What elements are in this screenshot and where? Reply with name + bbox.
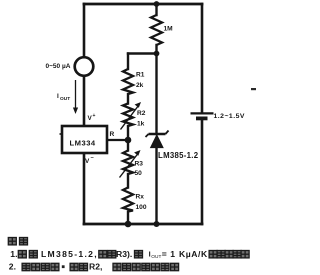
svg-text:I: I	[57, 93, 59, 100]
svg-text:2k: 2k	[136, 82, 144, 89]
caption heading	[8, 238, 27, 245]
svg-text:=: =	[162, 249, 167, 259]
wire between R1 and R2	[127, 94, 129, 104]
svg-text:Rx: Rx	[136, 194, 145, 201]
op-amp U1 LM334 box	[60, 126, 108, 153]
svg-text:LM334: LM334	[70, 139, 96, 148]
svg-text:1k: 1k	[137, 121, 145, 128]
svg-text:R3: R3	[135, 161, 144, 168]
wire left column R1 top lead	[127, 54, 129, 70]
resistor 1M	[151, 15, 173, 45]
pin label V+	[88, 113, 96, 122]
svg-text:1M: 1M	[164, 26, 174, 33]
wire right rail upper (battery +)	[201, 4, 204, 112]
zener diode D1 LM385-1.2	[146, 131, 199, 161]
svg-text:1.2~1.5V: 1.2~1.5V	[214, 113, 245, 120]
svg-text:1: 1	[170, 249, 175, 259]
node E junction dot bottom zener	[154, 221, 160, 227]
wire LM334 V- down	[83, 152, 86, 224]
svg-text:0~50 µA: 0~50 µA	[46, 63, 71, 70]
svg-text:R: R	[110, 131, 115, 138]
svg-text:R2: R2	[137, 110, 146, 117]
wire top rail	[84, 3, 202, 6]
svg-text:OUT: OUT	[60, 96, 70, 102]
wire between R2 and R3	[127, 126, 129, 151]
svg-text:V: V	[85, 158, 90, 165]
potentiometer R2 1k	[121, 102, 146, 130]
svg-text:1.: 1.	[10, 249, 17, 259]
battery B1 1.2~1.5V	[191, 113, 245, 120]
svg-text:R2,: R2,	[89, 262, 102, 272]
svg-text:OUT: OUT	[151, 254, 161, 260]
svg-text:100: 100	[136, 204, 147, 211]
node D junction dot bottom Rx	[125, 221, 132, 228]
wire current source to LM334 V+	[83, 75, 86, 126]
stray scan mark	[251, 88, 256, 90]
potentiometer R3 50	[120, 150, 144, 178]
wire between R3 and Rx	[127, 174, 129, 188]
svg-text:50: 50	[135, 170, 143, 177]
wire left drop to current source	[83, 4, 86, 58]
wire zener anode to bottom rail	[155, 147, 157, 224]
svg-text:R3).: R3).	[116, 249, 132, 259]
wire bottom rail	[84, 223, 202, 226]
svg-text:KµA/K: KµA/K	[179, 249, 208, 259]
wire right rail lower (battery -)	[201, 120, 204, 225]
node A junction dot top rail	[154, 1, 160, 7]
wire branch junction B to left column	[128, 52, 157, 54]
resistor Rx 100	[123, 188, 147, 212]
wire LM334 R pin to junction C	[107, 139, 128, 141]
caption line 1	[10, 249, 249, 260]
svg-text:R1: R1	[136, 72, 145, 79]
svg-text:2.: 2.	[9, 262, 16, 272]
wire Rx bottom lead	[127, 212, 129, 225]
current source circle 0~50uA	[46, 57, 94, 76]
svg-text:LM385-1.2,: LM385-1.2,	[41, 249, 98, 259]
IOUT arrow	[57, 80, 78, 114]
svg-text:+: +	[93, 113, 96, 119]
node B junction dot branch	[154, 51, 160, 57]
wire center drop junction A to 1M	[155, 4, 157, 15]
caption line 2	[9, 262, 179, 272]
svg-text:LM385-1.2: LM385-1.2	[158, 151, 199, 160]
node C junction dot R pin	[125, 137, 132, 144]
pin label V-	[85, 156, 95, 166]
wire 1M to zener cathode	[155, 45, 157, 134]
resistor R1 2k	[123, 69, 145, 94]
